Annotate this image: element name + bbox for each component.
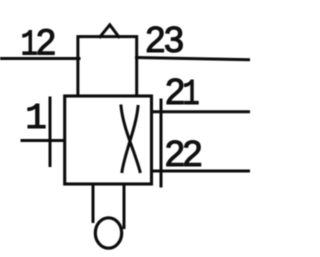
svg-text:2: 2: [36, 22, 56, 63]
triangle roof on head box: [100, 25, 119, 37]
left guide bar (vertical tick): [49, 98, 52, 166]
svg-text:1: 1: [25, 98, 47, 139]
wire terminal 1: [22, 139, 65, 142]
wire terminal 23: [137, 58, 251, 60]
wire terminal 22: [152, 170, 251, 173]
roller circle: [95, 218, 121, 248]
wire terminal 21: [152, 110, 251, 113]
switch body box U1: [65, 96, 152, 184]
plunger stem right line: [123, 184, 126, 228]
svg-text:2: 2: [182, 133, 202, 174]
actuator head box (top rectangle): [78, 37, 137, 96]
plunger stem left line: [92, 184, 95, 222]
contact X symbol inside body: [121, 106, 140, 172]
right guide bar (vertical tick): [160, 100, 163, 186]
wire terminal 12: [0, 57, 79, 60]
svg-text:3: 3: [164, 19, 184, 60]
svg-text:2: 2: [145, 19, 165, 60]
svg-text:1: 1: [182, 74, 199, 115]
